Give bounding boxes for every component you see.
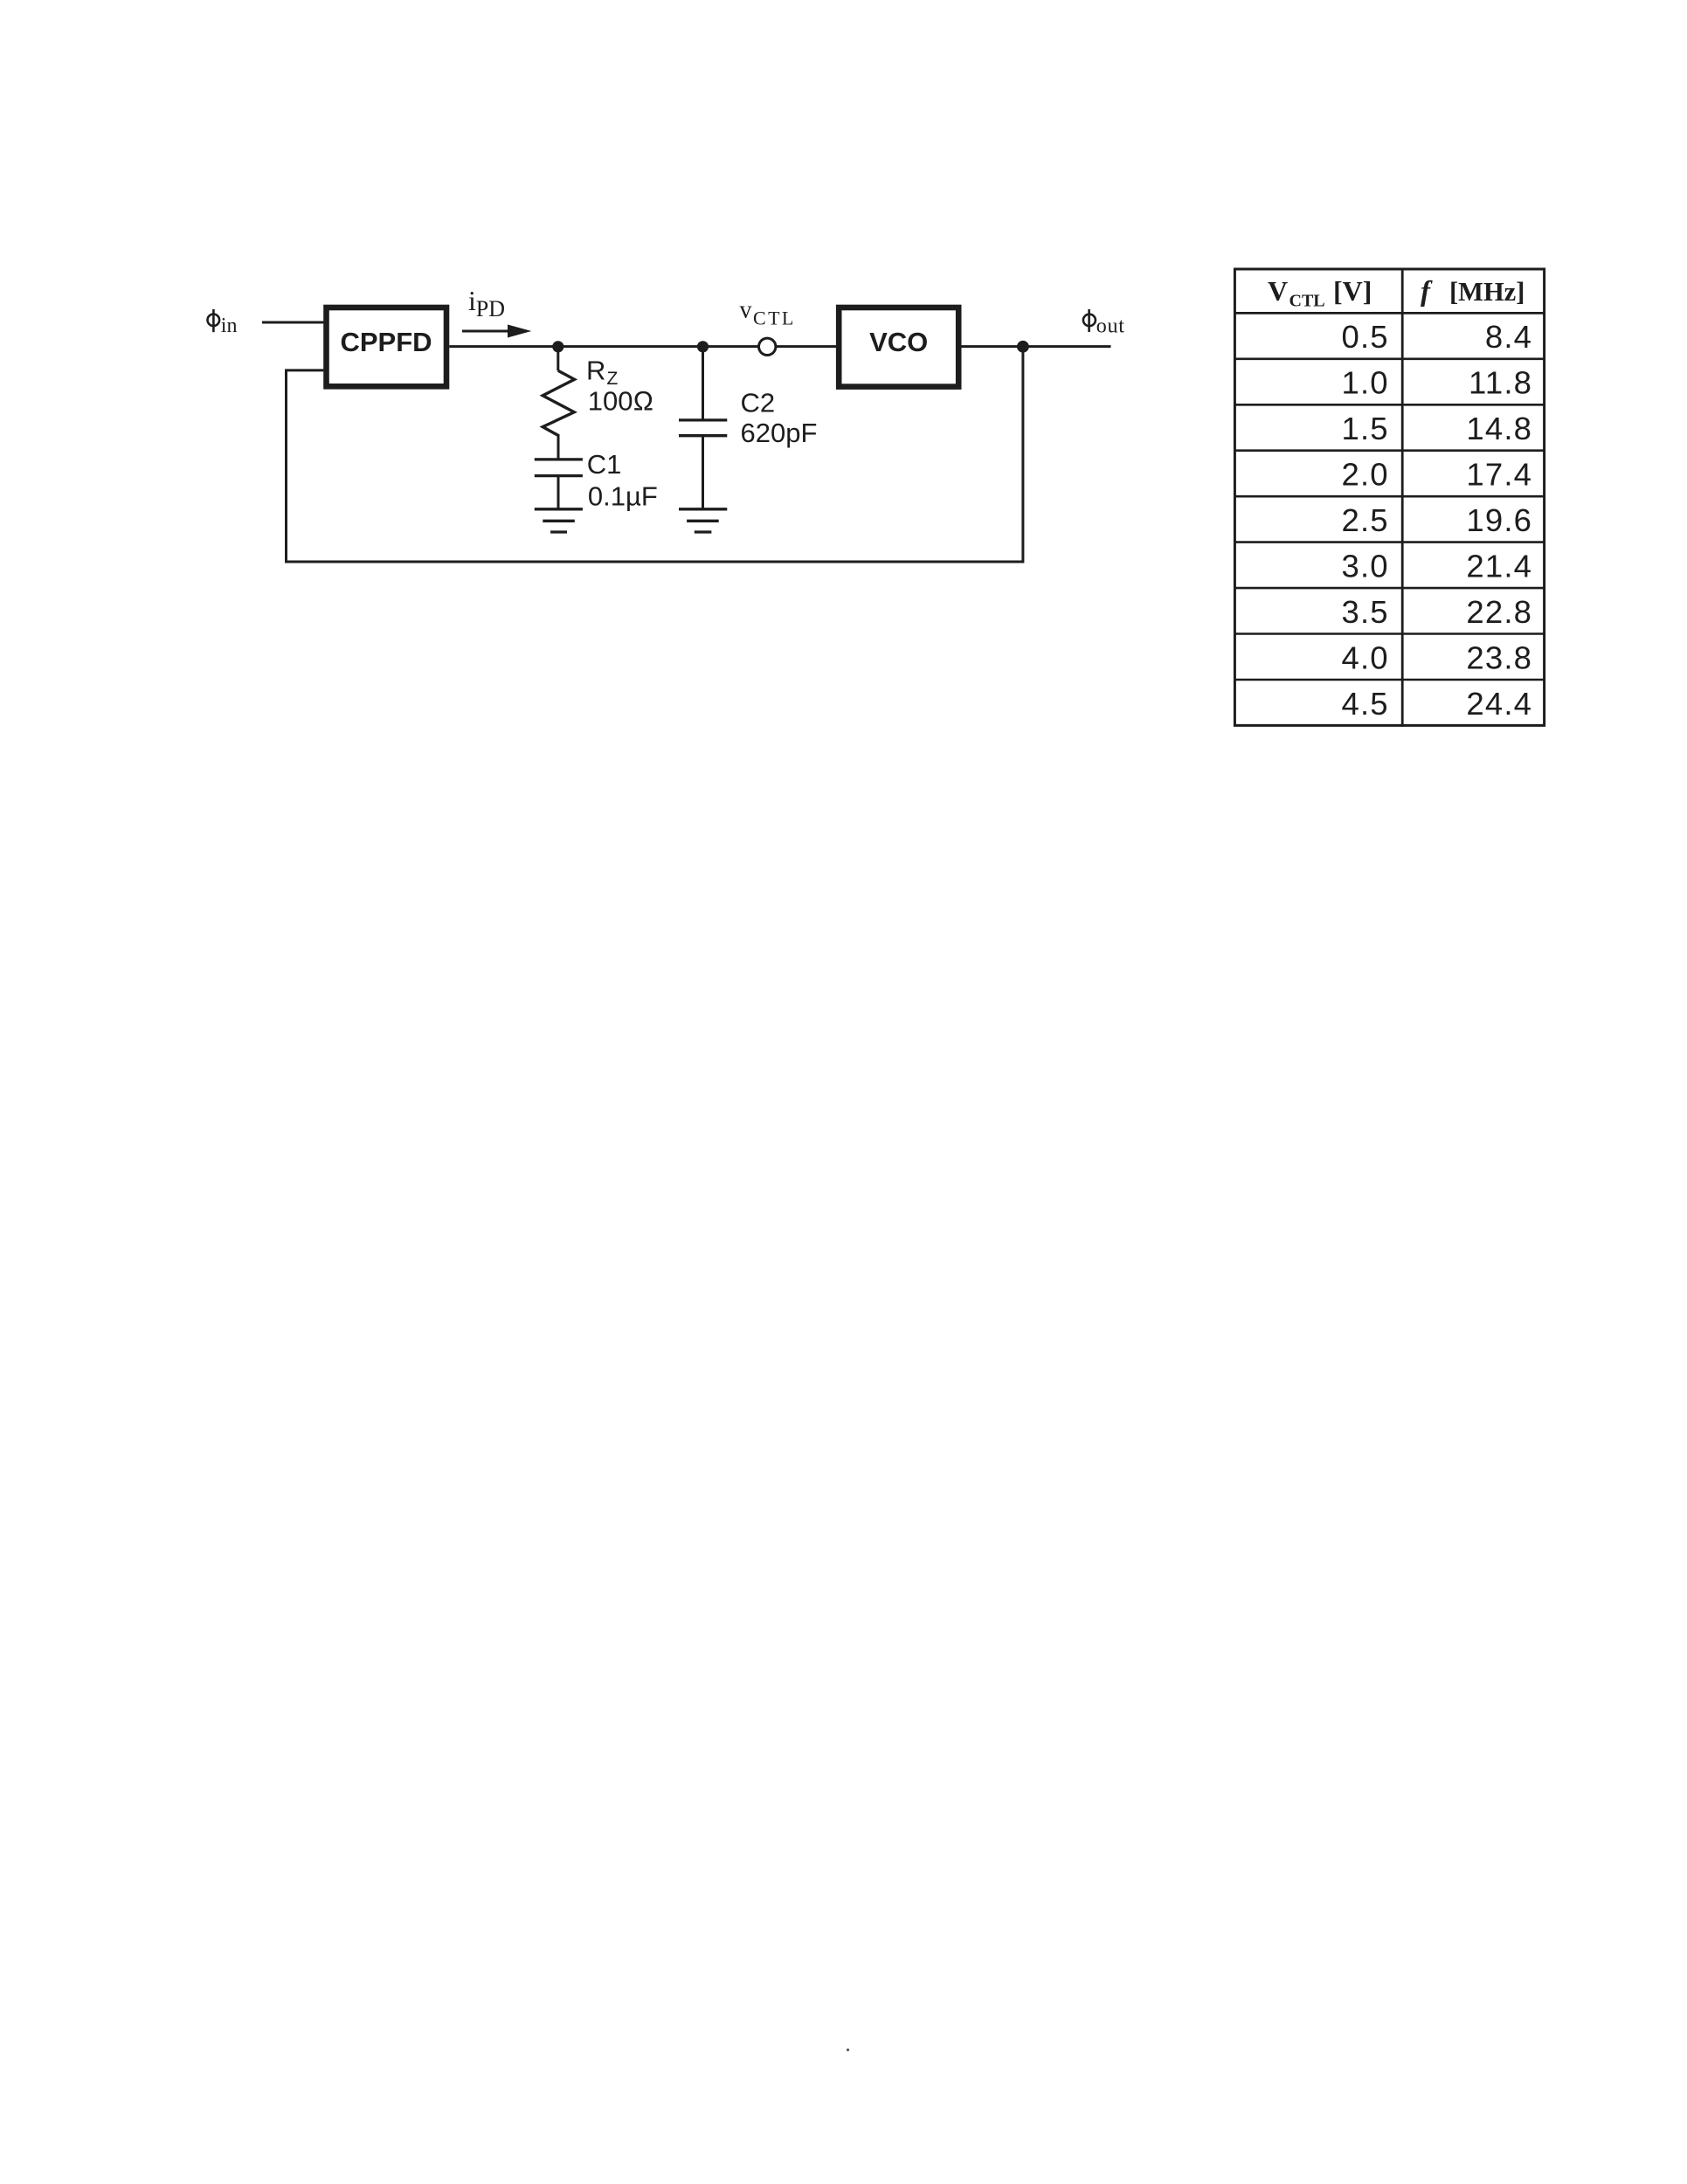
svg-text:19.6: 19.6 [1466, 502, 1532, 538]
svg-text:[MHz]: [MHz] [1449, 277, 1525, 307]
wire vctl circle to VCO [777, 345, 840, 348]
wire VCO output [961, 345, 1110, 348]
svg-text:i: i [468, 285, 476, 316]
table header V_CTL [V] [1268, 275, 1372, 311]
svg-text:2.0: 2.0 [1341, 457, 1388, 493]
svg-text:1.5: 1.5 [1341, 411, 1388, 446]
svg-text:4.0: 4.0 [1341, 639, 1388, 675]
svg-text:4.5: 4.5 [1341, 686, 1388, 722]
svg-text:[V]: [V] [1333, 275, 1372, 307]
svg-text:0.1µF: 0.1µF [588, 481, 658, 512]
ground symbol below C1 [535, 509, 583, 532]
table data column f values [1466, 319, 1532, 722]
svg-text:v: v [740, 297, 752, 324]
table data column V values [1341, 319, 1388, 722]
wire feedback loop [287, 347, 1023, 562]
wire CPPFD output to vctl circle [449, 345, 758, 348]
svg-text:22.8: 22.8 [1466, 594, 1532, 630]
svg-text:23.8: 23.8 [1466, 639, 1532, 675]
node v_CTL open circle [759, 338, 776, 355]
svg-text:PD: PD [476, 296, 505, 321]
capacitor C2 plates [679, 420, 727, 436]
svg-text:21.4: 21.4 [1466, 548, 1532, 584]
node phi_in label [208, 309, 238, 337]
svg-text:3.5: 3.5 [1341, 594, 1388, 630]
svg-text:C1: C1 [587, 449, 622, 480]
wire phi_in input [262, 321, 326, 324]
svg-text:out: out [1096, 315, 1125, 338]
block VCO [839, 308, 958, 387]
svg-text:1.0: 1.0 [1341, 365, 1388, 401]
svg-text:VCO: VCO [869, 327, 928, 357]
resistor Rz zigzag [543, 370, 574, 436]
wire node B to C2 [702, 347, 704, 420]
label i_PD [468, 285, 505, 321]
junction node at Rz [552, 341, 563, 352]
svg-text:0.5: 0.5 [1341, 319, 1388, 355]
block CPPFD [327, 308, 447, 386]
wire C2 to ground [702, 436, 704, 509]
svg-text:C2: C2 [741, 387, 776, 418]
svg-text:CTL: CTL [1289, 292, 1325, 311]
svg-text:CPPFD: CPPFD [340, 327, 432, 357]
wire C1 to ground [557, 476, 560, 509]
svg-text:8.4: 8.4 [1485, 319, 1532, 355]
svg-text:in: in [221, 314, 238, 337]
svg-text:24.4: 24.4 [1466, 686, 1532, 722]
svg-text:620pF: 620pF [741, 418, 818, 448]
ground symbol below C2 [679, 509, 727, 532]
svg-text:17.4: 17.4 [1466, 457, 1532, 493]
label v_CTL [740, 297, 796, 329]
svg-text:f: f [1421, 276, 1433, 308]
table header f [MHz] [1421, 276, 1525, 308]
junction node at C2 [697, 341, 709, 352]
svg-text:100Ω: 100Ω [588, 386, 654, 417]
label Rz [586, 355, 619, 389]
capacitor C1 plates [535, 460, 583, 476]
scan speck artifact [847, 2049, 849, 2051]
svg-text:V: V [1268, 275, 1288, 307]
wire resistor to C1 [557, 435, 560, 460]
svg-text:3.0: 3.0 [1341, 548, 1388, 584]
arrow i_PD current direction [462, 325, 531, 338]
wire node A to resistor [557, 347, 559, 371]
svg-text:11.8: 11.8 [1469, 365, 1532, 401]
svg-text:R: R [586, 355, 605, 385]
svg-text:2.5: 2.5 [1341, 502, 1388, 538]
svg-text:14.8: 14.8 [1466, 411, 1532, 446]
junction node at output [1017, 341, 1029, 353]
table VCO tuning characteristic [1234, 268, 1545, 727]
svg-text:CTL: CTL [753, 308, 796, 329]
node phi_out label [1083, 309, 1125, 338]
